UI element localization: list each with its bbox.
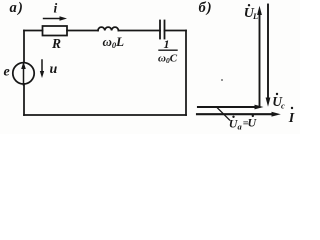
capacitor C	[159, 21, 161, 39]
wire right side	[185, 31, 187, 116]
svg-text:ω0C: ω0C	[158, 53, 178, 66]
svg-text:R: R	[51, 36, 61, 51]
voltage arrow u	[41, 60, 43, 73]
wire left upper	[23, 31, 25, 63]
speckle	[221, 79, 223, 81]
svg-text:i: i	[54, 1, 58, 16]
svg-text:1: 1	[164, 37, 170, 51]
wire inductor to capacitor	[118, 30, 160, 32]
svg-text:u: u	[50, 62, 58, 77]
svg-text:U: U	[248, 116, 258, 130]
axis I arrow right	[197, 113, 273, 115]
svg-text:c: c	[281, 101, 285, 111]
phasor UL arrow up	[259, 14, 261, 108]
wire top-left segment	[24, 30, 43, 32]
wire resistor to inductor	[67, 30, 98, 32]
source e	[13, 63, 34, 84]
leader line	[217, 107, 230, 120]
svg-text:а: а	[238, 122, 243, 132]
current arrow i	[44, 18, 62, 20]
svg-text:а): а)	[10, 0, 24, 16]
inductor L	[98, 27, 118, 30]
wire bottom	[24, 114, 186, 116]
svg-text:L: L	[252, 11, 258, 21]
svg-text:б): б)	[199, 0, 213, 16]
wire capacitor to right corner	[165, 30, 187, 32]
phasor UC arrow down	[267, 5, 269, 100]
svg-text:ω0L: ω0L	[103, 34, 125, 50]
resistor R	[43, 26, 68, 36]
svg-text:е: е	[4, 65, 10, 80]
svg-text:I: I	[288, 111, 295, 126]
phasor UR arrow right	[198, 106, 256, 108]
wire left lower	[23, 84, 25, 115]
